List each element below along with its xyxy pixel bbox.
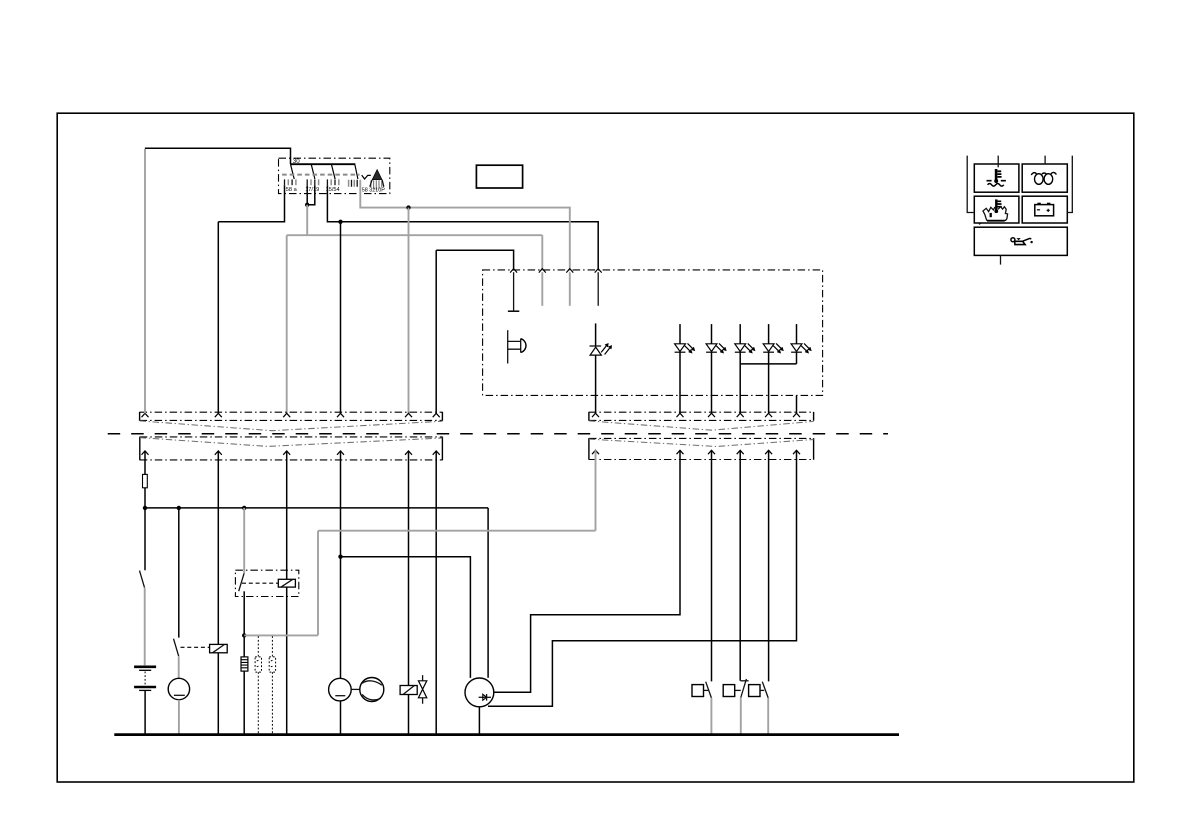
wire: terminal 58a down-left to harness connector (218, 185, 284, 413)
magneto / generator with regulator M1 (465, 678, 494, 707)
junction sender node (338, 555, 342, 559)
pilot lamp relay contact (174, 639, 179, 657)
right connector pin arrows upper strip (592, 413, 800, 417)
wire: right connector pin 5 to stop switch 3 (768, 450, 770, 681)
optional resistor branch 1 (dotted) (255, 636, 261, 734)
cluster pin 2 arrow (539, 269, 546, 306)
legend box C engine temperature (974, 196, 1019, 223)
wire: bus 235 to relay coil and cluster pin 2 (287, 235, 543, 413)
left harness bundle upper (140, 421, 443, 431)
junction rail-battery (143, 506, 147, 510)
suppression resistor (hatched) (241, 657, 248, 671)
legend box A water temperature warning (974, 164, 1019, 192)
icon oil can (1011, 238, 1033, 245)
right harness connector lower strip (589, 438, 814, 460)
svg-text:58 a: 58 a (286, 187, 298, 193)
left harness bundle lower (140, 438, 443, 447)
wire: connector pin3 through relay coil to ground (286, 451, 288, 735)
ignition switch mechanical link (dashed) (282, 175, 371, 179)
wire: magneto top pin 2 from rail (487, 508, 489, 678)
pilot lamp G1 (168, 678, 189, 699)
indicator LED L2 (675, 324, 695, 413)
left connector pin arrows lower strip (142, 451, 440, 455)
junction rail-relay branch (242, 506, 246, 510)
wire: connector pin4 down to fuel gauge sender (340, 451, 342, 678)
pilot lamp relay mech link (181, 646, 210, 648)
wire: sender to ground (340, 701, 342, 735)
wire: cluster pin 6 exit (796, 395, 798, 413)
wire: contact to pilot lamp (thin) (178, 656, 180, 678)
wire: stop switch 2 to ground (thin) (740, 698, 742, 735)
wire: LED common bus inside cluster (740, 363, 796, 365)
indicator LED L6 (791, 324, 811, 364)
border frame (57, 113, 1134, 782)
svg-text:58 3210P: 58 3210P (362, 188, 385, 194)
terminal comb 17/19 (307, 179, 318, 185)
icon thermometer in engine (979, 199, 1008, 224)
cluster pin 3 arrow (566, 269, 573, 306)
icon glow coil (1031, 172, 1056, 184)
stop switch 3 (749, 682, 769, 698)
junction 58 branch (406, 205, 410, 209)
left connector pin arrows upper strip (142, 413, 440, 417)
main positive rail (145, 507, 488, 509)
optional resistor branch 2 (dotted) (269, 636, 275, 734)
wire: right connector pin 1 to resistor node (thin) (318, 450, 596, 530)
ignition key symbol (370, 170, 384, 191)
stop switch 2 fixed bar (740, 680, 748, 682)
wire: relay contact output (243, 591, 245, 657)
wire: magneto output to right connector pin 2 (494, 450, 680, 692)
wire: battery feed to ignition terminal 30 (145, 148, 291, 164)
wire: magneto output 2 to right connector pin 6 (488, 450, 797, 706)
fuel shutoff solenoid coil (400, 686, 417, 695)
battery master switch (140, 571, 145, 588)
wire: stop switch 3 to ground (thin) (767, 698, 769, 735)
pilot lamp relay coil (210, 644, 228, 652)
ignition switch contact blade 3 (331, 164, 335, 179)
wire: right connector pin 3 to stop switch 1 (711, 450, 713, 681)
indicator LED L4 (735, 324, 755, 413)
icon battery (1035, 203, 1054, 216)
ignition switch contact blade 2 (311, 164, 315, 179)
wire: 17/19 node down to bus 235 (306, 205, 308, 235)
right connector pin arrows lower strip (592, 450, 800, 454)
stop switch 2 (normally closed) (723, 679, 746, 698)
fuse F1 (143, 474, 148, 487)
junction resistor node (242, 633, 246, 637)
wire: right connector pin 4 to stop switch 2 (739, 450, 741, 681)
relay R1 coil (278, 579, 295, 587)
wire: terminal 15/54 to cluster pin 4 (327, 185, 598, 268)
cluster pin 4 arrow (595, 269, 602, 306)
legend stub wire box A (997, 156, 999, 168)
indicator LED L1 (turn signal) (590, 323, 612, 413)
chassis separation dashed line (108, 433, 888, 435)
wire: connector pin6 (cluster ground) to ground (435, 451, 437, 735)
buzzer / speaker symbol (508, 330, 526, 363)
legend stub wire left to box C (967, 156, 974, 213)
wire: terminal 58 to cluster pin 3 (thin) (360, 180, 570, 269)
ignition switch bus 30 (291, 163, 356, 165)
fuel pump / float unit (360, 678, 384, 702)
ignition switch contact blade 4 (355, 164, 358, 179)
battery B1 (134, 667, 156, 691)
junction rail-pilot lamp branch (177, 506, 181, 510)
indicator LED L3 (706, 324, 726, 413)
wire: magneto to ground (478, 707, 480, 735)
wire: rail to relay contact (thin) (243, 508, 245, 573)
right harness bundle lower (589, 439, 814, 446)
right harness connector upper strip (589, 412, 814, 421)
legend box D battery charge (1022, 196, 1067, 223)
wire: pilot lamp to ground (thin) (178, 700, 180, 735)
left harness connector lower strip (140, 437, 443, 461)
fuel gauge sender G2 (329, 678, 352, 701)
right harness bundle upper (589, 421, 814, 430)
legend stub wire below box E (1000, 255, 1002, 264)
relay R1 box (dash-dot) (235, 570, 298, 596)
legend stub wire box B (1044, 156, 1046, 164)
relay R1 mech link (242, 582, 278, 584)
wire: sender node to magneto top pin 1 (341, 557, 471, 678)
wire: 15/54 branch down to harness connector (340, 222, 342, 414)
wire: battery positive riser (thin) (144, 149, 146, 413)
terminal comb 15/54 (327, 179, 338, 185)
stop switch 1 (692, 682, 711, 698)
instrument cluster box (dash-dot enclosure) (483, 270, 823, 396)
icon thermometer in liquid (987, 169, 1006, 186)
wire: stop switch 1 to ground (thin) (710, 698, 712, 735)
wire: cluster ground pin 1 from ground wire 436 (436, 250, 513, 413)
relay R1 contact (239, 573, 244, 591)
wire: battery feed below connector through fuse (144, 451, 146, 570)
sender link wire (351, 688, 360, 690)
indicator LED L5 (763, 324, 783, 413)
wire: switch to battery (thin) (144, 588, 146, 666)
ground rail (114, 733, 899, 736)
wire: terminal 17/19 pair join (307, 185, 315, 205)
terminal comb 58-32-10P (349, 180, 358, 187)
wire: 58 branch down to harness connector (thin) (408, 208, 410, 414)
title box (empty rectangle) (476, 165, 522, 188)
wire: connector pin2 through coil to ground (217, 451, 219, 735)
cluster internal ground bar (508, 310, 519, 312)
wire: resistor to ground (243, 671, 245, 735)
legend box E oil pressure (974, 227, 1067, 255)
cluster pin 1 arrow (ground) (510, 269, 517, 311)
legend stub wire right to box D (1067, 156, 1072, 213)
wire: connector pin5 through solenoid coil to ground (408, 451, 410, 735)
legend box B glow plug (1022, 164, 1067, 192)
ignition switch contact blade 1 (291, 164, 295, 179)
wire: battery negative to ground (144, 691, 146, 735)
ignition switch unit box (dash-dot enclosure) (279, 158, 390, 193)
junction 15/54 branch (338, 220, 342, 224)
wire: resistor node link (thin) (244, 531, 318, 636)
wire: pilot lamp branch (178, 508, 180, 638)
terminal comb 58a (285, 179, 296, 185)
junction 17/19 (305, 203, 309, 207)
fuel shutoff valve (bowtie) (418, 675, 426, 704)
left harness connector upper strip (140, 412, 443, 421)
